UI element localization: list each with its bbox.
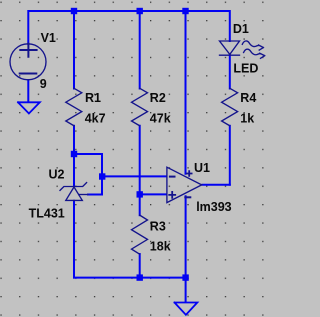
V1 minus sign (20, 73, 37, 75)
wire op-amp V+ pin to top rail (185, 11, 187, 174)
wire R2 bottom lead (139, 126, 141, 195)
wire R3 top lead (139, 194, 141, 215)
op-amp non-inverting plus mark (169, 192, 175, 198)
junction R2/R3/non-inverting input (137, 191, 143, 197)
wire V1 to ground (27, 80, 29, 102)
svg-text:47k: 47k (150, 112, 171, 126)
svg-text:4k7: 4k7 (85, 112, 106, 126)
ground (bottom) (175, 303, 198, 315)
voltage source V1 circle (10, 44, 46, 80)
wire R4 bottom lead to op-amp output corner (229, 126, 231, 185)
wire R3 bottom lead (139, 254, 141, 278)
wire bottom rail to ground (185, 278, 187, 302)
wire op-amp V- pin to bottom rail (185, 196, 187, 277)
svg-text:1k: 1k (240, 112, 254, 126)
wire top rail (28, 11, 230, 44)
op-amp V- mark (185, 196, 190, 198)
TL431 U2 cathode bar with ticks (60, 183, 87, 191)
svg-text:R1: R1 (85, 91, 101, 105)
TL431 ref pin stub (79, 194, 88, 196)
wire TL431 ref to loop (88, 194, 102, 196)
resistor R1 zigzag (66, 88, 82, 126)
svg-text:V1: V1 (41, 31, 56, 45)
V1 plus sign (20, 44, 36, 57)
op-amp V+ mark (187, 171, 192, 176)
wire TL431 anode to bottom rail (73, 201, 75, 278)
svg-text:R3: R3 (150, 219, 166, 233)
svg-text:R4: R4 (240, 91, 256, 105)
resistor R2 zigzag (132, 88, 148, 126)
wire bottom rail (74, 277, 186, 279)
junction top rail R1 (71, 8, 77, 14)
junction R1/U2/loop (71, 151, 77, 157)
svg-text:LED: LED (233, 62, 258, 76)
resistor R3 zigzag (132, 215, 148, 254)
D1 emission arrow 2 (244, 49, 265, 58)
junction loop/inverting input (99, 173, 105, 179)
TL431 U2 triangle (66, 187, 83, 200)
svg-text:18k: 18k (150, 240, 171, 254)
op-amp U1 triangle (167, 167, 202, 202)
resistor R4 zigzag (222, 88, 238, 126)
svg-text:U2: U2 (49, 167, 65, 181)
junction bottom rail ground (182, 274, 188, 280)
svg-text:D1: D1 (233, 22, 249, 36)
op-amp inverting minus mark (170, 176, 175, 178)
wire D1 to R4 (229, 55, 231, 89)
svg-text:R2: R2 (150, 91, 166, 105)
svg-text:U1: U1 (194, 161, 210, 175)
svg-text:9: 9 (40, 77, 47, 91)
junction top rail R2 (137, 8, 143, 14)
wire to non-inverting input (140, 193, 166, 195)
svg-text:TL431: TL431 (29, 207, 65, 221)
wire R1 bottom lead (73, 126, 75, 154)
D1 cathode bar (220, 54, 240, 56)
wire TL431 cathode top (73, 154, 75, 186)
junction bottom rail R3 (137, 274, 143, 280)
ground (V1) (18, 102, 40, 113)
D1 emission arrow 1 (242, 41, 263, 50)
wire op-amp output (203, 184, 230, 186)
wire R2 top lead (139, 11, 141, 89)
junction top rail op-amp V+ (182, 8, 188, 14)
wire R1 top lead (73, 11, 75, 89)
svg-text:lm393: lm393 (196, 200, 231, 214)
wire to inverting input (102, 175, 166, 177)
wire TL431 loop: junction right then down (74, 154, 102, 195)
LED D1 triangle (220, 41, 240, 54)
